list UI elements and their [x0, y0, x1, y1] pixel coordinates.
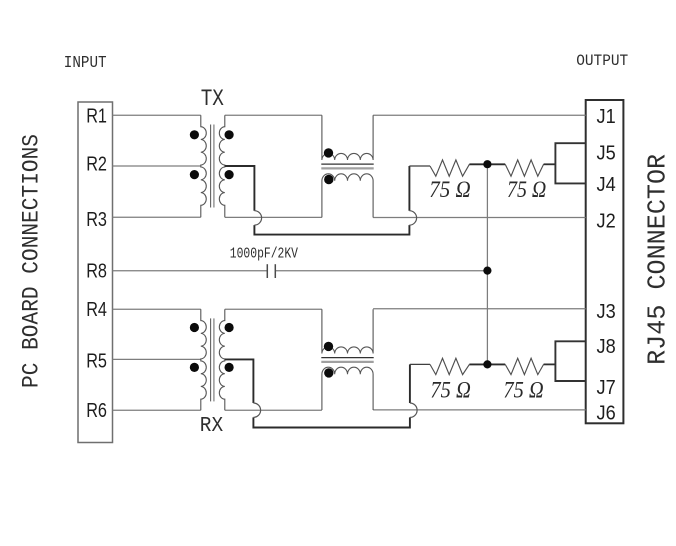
transformer T1 primary winding: [201, 115, 206, 217]
wire node A to node B common vertical: [486, 164, 488, 364]
choke L2 top winding: [322, 309, 373, 353]
transformer T2 core: [211, 318, 214, 401]
svg-text:J8: J8: [597, 335, 616, 358]
choke L1 bottom winding: [322, 174, 373, 218]
transformer T2 secondary winding: [219, 309, 224, 410]
wire R5 to T2 center tap: [113, 358, 201, 360]
svg-text:1000pF/2KV: 1000pF/2KV: [230, 246, 298, 262]
svg-text:J1: J1: [597, 105, 616, 128]
wire R4 to T2: [113, 308, 201, 310]
svg-text:R4: R4: [86, 298, 107, 321]
wire T1 secondary bottom to choke L1: [225, 216, 322, 218]
node A junction dot: [483, 160, 491, 168]
wire R6 to T2: [113, 409, 201, 411]
wire capacitor C1 to node C: [275, 270, 487, 272]
svg-text:75 Ω: 75 Ω: [503, 378, 543, 403]
svg-text:PC BOARD CONNECTIONS: PC BOARD CONNECTIONS: [19, 134, 45, 388]
svg-text:R1: R1: [86, 105, 107, 128]
resistor 75 ohm (TX right): [469, 160, 555, 176]
svg-text:RJ45 CONNECTOR: RJ45 CONNECTOR: [643, 154, 673, 365]
svg-text:R8: R8: [86, 259, 107, 282]
svg-text:J6: J6: [597, 402, 616, 425]
svg-text:RX: RX: [200, 415, 224, 438]
wire T1 center tap to resistor network (with crossover hops): [225, 166, 417, 235]
wire bracket J5-J4: [555, 143, 585, 183]
svg-text:J3: J3: [597, 300, 616, 323]
choke L2 bottom winding: [322, 367, 373, 410]
wire choke L2 to J3: [373, 308, 586, 310]
transformer T2 primary winding: [201, 309, 206, 410]
transformer T1 secondary winding: [219, 115, 224, 217]
transformer T1 core: [211, 125, 214, 208]
capacitor C1 plates: [267, 264, 275, 278]
svg-text:J7: J7: [597, 376, 616, 399]
svg-text:R3: R3: [86, 208, 107, 231]
choke L1 core: [321, 164, 373, 168]
PC board connector box: [78, 102, 113, 443]
transformer T2 polarity dots: [190, 323, 234, 372]
wire choke L2 to J6: [373, 409, 586, 411]
svg-text:R6: R6: [86, 399, 107, 422]
node B junction dot: [483, 360, 491, 368]
svg-text:R5: R5: [86, 349, 107, 372]
wire choke L1 to J1: [373, 114, 586, 116]
resistor 75 ohm (RX right): [469, 358, 555, 374]
wire choke L1 to J2: [373, 217, 586, 219]
wire R3 to T1: [113, 216, 201, 218]
choke L1 polarity dots: [324, 148, 334, 184]
resistor 75 ohm (TX left): [409, 160, 469, 176]
svg-text:75 Ω: 75 Ω: [429, 177, 470, 202]
svg-text:INPUT: INPUT: [64, 54, 107, 73]
wire T2 secondary bottom to choke L2: [225, 409, 322, 411]
resistor 75 ohm (RX left): [410, 358, 470, 374]
wire R1 to T1: [113, 114, 201, 116]
svg-text:TX: TX: [201, 86, 224, 112]
choke L1 top winding: [322, 115, 373, 160]
node C junction dot: [483, 267, 491, 275]
wire R8 to capacitor C1: [113, 270, 268, 272]
wire bracket J8-J7: [555, 341, 585, 381]
svg-text:J5: J5: [597, 141, 616, 164]
svg-text:75 Ω: 75 Ω: [507, 177, 546, 202]
wire T1 secondary top to choke L1: [225, 114, 322, 116]
svg-text:OUTPUT: OUTPUT: [576, 52, 628, 70]
wire T2 center tap to resistor network (with crossover hops): [225, 359, 417, 427]
svg-text:75 Ω: 75 Ω: [430, 378, 470, 403]
wire R2 to T1 center tap: [113, 165, 201, 167]
transformer T1 polarity dots: [190, 130, 234, 179]
svg-text:J2: J2: [597, 209, 616, 232]
choke L2 core: [321, 358, 373, 362]
svg-text:J4: J4: [597, 173, 616, 196]
choke L2 polarity dots: [324, 342, 334, 378]
svg-text:R2: R2: [86, 153, 107, 176]
RJ45 connector box: [586, 100, 624, 423]
wire T2 secondary top to choke L2: [225, 308, 322, 310]
